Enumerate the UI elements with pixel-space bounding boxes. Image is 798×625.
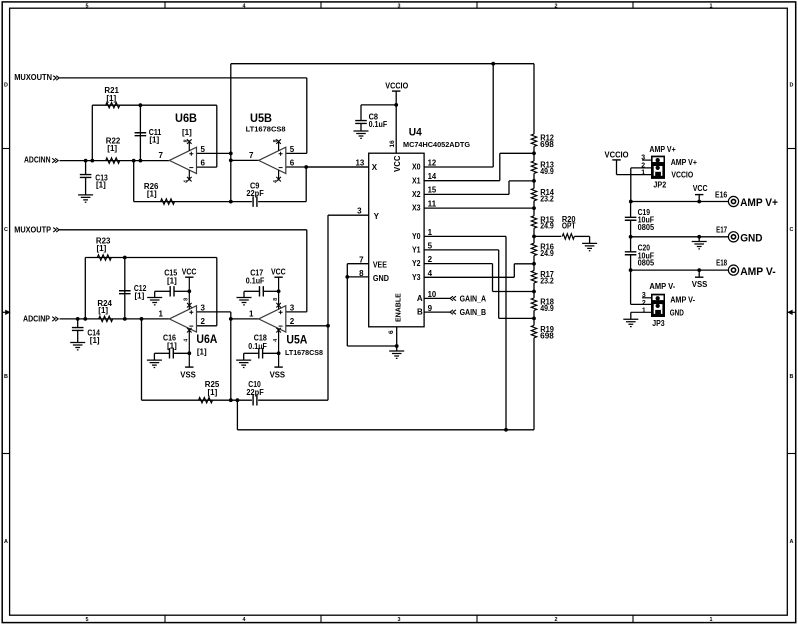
svg-text:23.2: 23.2 bbox=[540, 194, 554, 203]
svg-text:[1]: [1] bbox=[208, 388, 218, 397]
svg-text:JP2: JP2 bbox=[653, 180, 666, 189]
svg-text:B: B bbox=[417, 308, 423, 317]
svg-text:Y0: Y0 bbox=[412, 232, 421, 241]
svg-text:24.9: 24.9 bbox=[540, 249, 554, 258]
svg-text:3: 3 bbox=[641, 154, 645, 161]
svg-text:0.1uF: 0.1uF bbox=[246, 276, 265, 285]
svg-text:Y: Y bbox=[374, 212, 380, 221]
svg-text:4: 4 bbox=[273, 180, 279, 183]
svg-text:[1]: [1] bbox=[135, 292, 145, 301]
svg-text:VCC: VCC bbox=[393, 155, 402, 172]
svg-text:AMP V-: AMP V- bbox=[649, 282, 675, 291]
svg-text:0805: 0805 bbox=[638, 258, 655, 267]
svg-text:GND: GND bbox=[373, 274, 389, 283]
svg-text:7: 7 bbox=[159, 151, 164, 160]
svg-text:[1]: [1] bbox=[149, 135, 159, 144]
svg-text:3: 3 bbox=[290, 303, 295, 312]
svg-text:VCC: VCC bbox=[182, 267, 197, 276]
svg-text:E16: E16 bbox=[715, 191, 728, 200]
svg-text:A: A bbox=[417, 294, 423, 303]
svg-text:8: 8 bbox=[273, 298, 279, 301]
svg-text:0.1uF: 0.1uF bbox=[369, 120, 388, 129]
svg-text:8: 8 bbox=[184, 298, 190, 301]
svg-text:11: 11 bbox=[428, 199, 437, 208]
svg-text:U5A: U5A bbox=[286, 332, 307, 346]
svg-text:E17: E17 bbox=[716, 225, 727, 234]
svg-text:[1]: [1] bbox=[98, 306, 108, 315]
svg-text:6: 6 bbox=[201, 159, 206, 168]
svg-text:5: 5 bbox=[290, 145, 295, 154]
svg-text:24.9: 24.9 bbox=[540, 222, 554, 231]
svg-text:AMP V+: AMP V+ bbox=[671, 158, 698, 167]
svg-text:X2: X2 bbox=[412, 190, 421, 199]
svg-text:4: 4 bbox=[428, 269, 433, 278]
svg-text:D: D bbox=[790, 83, 794, 89]
svg-text:1: 1 bbox=[428, 228, 433, 237]
svg-text:[1]: [1] bbox=[97, 244, 107, 253]
svg-text:AMP V-: AMP V- bbox=[670, 296, 695, 305]
svg-text:VCC: VCC bbox=[271, 267, 286, 276]
svg-text:GAIN_B: GAIN_B bbox=[460, 308, 487, 317]
svg-text:8: 8 bbox=[359, 269, 364, 278]
svg-text:MUXOUTP: MUXOUTP bbox=[14, 225, 51, 234]
svg-text:5: 5 bbox=[428, 242, 433, 251]
svg-text:ENABLE: ENABLE bbox=[395, 293, 402, 322]
svg-text:5: 5 bbox=[86, 617, 89, 623]
svg-text:Y3: Y3 bbox=[412, 273, 421, 282]
svg-text:2: 2 bbox=[642, 300, 646, 307]
svg-text:VSS: VSS bbox=[270, 370, 286, 379]
svg-text:16: 16 bbox=[389, 140, 396, 148]
svg-text:[1]: [1] bbox=[96, 181, 106, 190]
svg-text:698: 698 bbox=[540, 331, 554, 340]
svg-text:1: 1 bbox=[710, 4, 713, 10]
svg-text:4: 4 bbox=[243, 617, 246, 623]
svg-text:VCCIO: VCCIO bbox=[385, 82, 408, 91]
svg-text:X: X bbox=[372, 163, 378, 172]
svg-text:VCCIO: VCCIO bbox=[605, 150, 629, 159]
svg-text:22pF: 22pF bbox=[246, 388, 264, 397]
svg-text:ADCINP: ADCINP bbox=[23, 314, 50, 323]
svg-text:E18: E18 bbox=[716, 259, 728, 268]
svg-text:C: C bbox=[4, 227, 8, 233]
svg-text:GND: GND bbox=[670, 309, 684, 318]
svg-text:6: 6 bbox=[290, 159, 295, 168]
svg-text:3: 3 bbox=[357, 206, 362, 215]
svg-text:[1]: [1] bbox=[182, 128, 192, 137]
svg-text:U4: U4 bbox=[409, 127, 423, 139]
svg-text:AMP V+: AMP V+ bbox=[649, 145, 676, 154]
svg-text:4: 4 bbox=[184, 180, 190, 183]
svg-text:6: 6 bbox=[388, 330, 395, 334]
svg-text:[1]: [1] bbox=[167, 341, 177, 350]
svg-text:14: 14 bbox=[428, 172, 437, 181]
svg-text:5: 5 bbox=[86, 4, 89, 10]
svg-text:2: 2 bbox=[428, 255, 433, 264]
svg-text:Y1: Y1 bbox=[412, 246, 421, 255]
svg-text:AMP V-: AMP V- bbox=[740, 266, 776, 278]
svg-text:23.2: 23.2 bbox=[540, 277, 554, 286]
svg-text:X1: X1 bbox=[412, 176, 421, 185]
svg-text:12: 12 bbox=[428, 158, 437, 167]
svg-text:VEE: VEE bbox=[373, 261, 388, 270]
svg-text:JP3: JP3 bbox=[652, 319, 665, 328]
svg-text:2: 2 bbox=[641, 162, 645, 169]
svg-text:[1]: [1] bbox=[197, 348, 207, 357]
svg-text:1: 1 bbox=[159, 310, 164, 319]
svg-text:OPT: OPT bbox=[562, 221, 576, 230]
svg-text:1: 1 bbox=[710, 617, 713, 623]
svg-text:[1]: [1] bbox=[90, 336, 100, 345]
svg-text:U6B: U6B bbox=[175, 111, 197, 125]
svg-text:GND: GND bbox=[740, 232, 762, 244]
svg-text:0.1uF: 0.1uF bbox=[248, 342, 267, 351]
svg-text:Y2: Y2 bbox=[412, 259, 421, 268]
svg-text:15: 15 bbox=[428, 186, 437, 195]
svg-text:3: 3 bbox=[201, 303, 206, 312]
svg-text:B: B bbox=[790, 374, 794, 380]
svg-text:U5B: U5B bbox=[250, 111, 272, 125]
svg-text:4: 4 bbox=[184, 339, 190, 342]
svg-text:2: 2 bbox=[555, 4, 558, 10]
svg-text:1: 1 bbox=[642, 307, 646, 314]
svg-text:D: D bbox=[4, 83, 8, 89]
svg-text:9: 9 bbox=[428, 304, 433, 313]
svg-text:698: 698 bbox=[540, 140, 554, 149]
svg-text:AMP V+: AMP V+ bbox=[740, 197, 778, 209]
svg-text:2: 2 bbox=[290, 317, 295, 326]
svg-text:X0: X0 bbox=[412, 163, 421, 172]
svg-text:4: 4 bbox=[243, 4, 246, 10]
svg-text:MUXOUTN: MUXOUTN bbox=[14, 73, 52, 82]
svg-text:7: 7 bbox=[359, 256, 364, 265]
svg-text:7: 7 bbox=[249, 151, 254, 160]
svg-text:[1]: [1] bbox=[107, 144, 117, 153]
svg-text:GAIN_A: GAIN_A bbox=[460, 294, 487, 303]
svg-text:3: 3 bbox=[642, 292, 646, 299]
svg-text:C: C bbox=[790, 227, 794, 233]
svg-text:[1]: [1] bbox=[106, 94, 116, 103]
svg-text:0805: 0805 bbox=[638, 223, 655, 232]
svg-text:LT1678CS8: LT1678CS8 bbox=[246, 125, 286, 134]
svg-text:2: 2 bbox=[201, 317, 206, 326]
svg-text:A: A bbox=[4, 539, 8, 545]
svg-text:49.9: 49.9 bbox=[540, 167, 554, 176]
svg-text:[1]: [1] bbox=[167, 276, 177, 285]
svg-text:VSS: VSS bbox=[692, 280, 708, 289]
svg-text:8: 8 bbox=[184, 139, 190, 142]
svg-text:VSS: VSS bbox=[180, 370, 196, 379]
svg-text:10: 10 bbox=[428, 290, 437, 299]
svg-text:[1]: [1] bbox=[147, 189, 157, 198]
svg-text:X3: X3 bbox=[412, 204, 421, 213]
svg-text:MC74HC4052ADTG: MC74HC4052ADTG bbox=[403, 140, 470, 149]
svg-text:8: 8 bbox=[273, 139, 279, 142]
svg-text:A: A bbox=[790, 539, 794, 545]
svg-text:U6A: U6A bbox=[196, 332, 217, 346]
svg-text:49.9: 49.9 bbox=[540, 304, 554, 313]
svg-text:3: 3 bbox=[398, 617, 401, 623]
svg-text:VCCIO: VCCIO bbox=[671, 171, 693, 180]
svg-text:5: 5 bbox=[201, 145, 206, 154]
svg-text:4: 4 bbox=[273, 339, 279, 342]
svg-text:B: B bbox=[4, 374, 8, 380]
svg-text:1: 1 bbox=[641, 169, 645, 176]
svg-text:22pF: 22pF bbox=[246, 189, 264, 198]
svg-text:1: 1 bbox=[249, 310, 254, 319]
svg-text:3: 3 bbox=[398, 4, 401, 10]
svg-text:VCC: VCC bbox=[693, 184, 708, 193]
svg-text:LT1678CS8: LT1678CS8 bbox=[285, 348, 323, 357]
svg-text:13: 13 bbox=[356, 158, 365, 167]
svg-text:ADCINN: ADCINN bbox=[24, 156, 51, 165]
svg-text:2: 2 bbox=[555, 617, 558, 623]
